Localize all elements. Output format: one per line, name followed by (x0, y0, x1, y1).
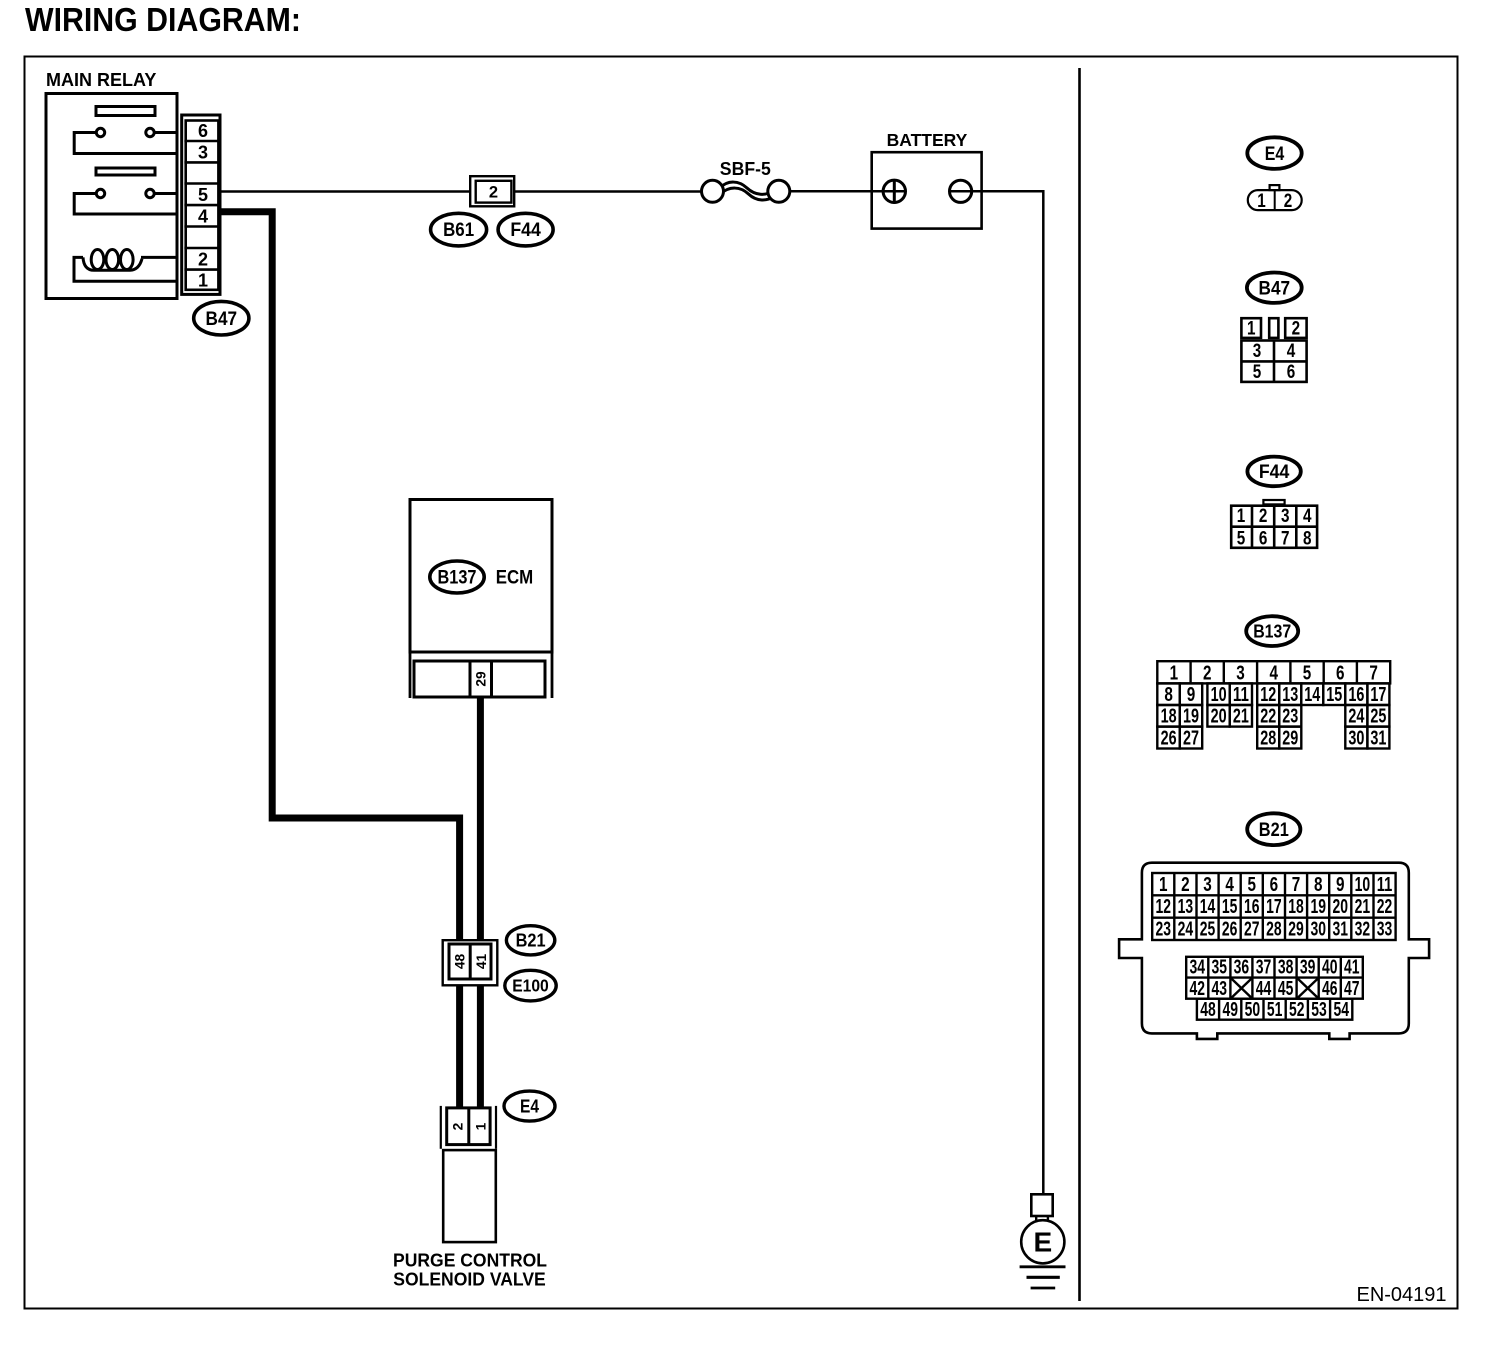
svg-text:18: 18 (1161, 705, 1177, 728)
svg-text:3: 3 (1253, 340, 1262, 362)
connector ref B137 in ECM (430, 561, 484, 593)
svg-text:F44: F44 (1259, 462, 1290, 483)
svg-text:3: 3 (1203, 873, 1212, 896)
svg-text:50: 50 (1245, 998, 1261, 1021)
svg-text:23: 23 (1156, 918, 1172, 941)
wire B21 pin48 to E4 pin2 (456, 985, 463, 1107)
svg-text:12: 12 (1260, 683, 1276, 706)
pinout F44 connector (1263, 500, 1284, 504)
svg-text:41: 41 (474, 954, 489, 970)
svg-text:44: 44 (1256, 977, 1272, 1000)
svg-text:7: 7 (1281, 528, 1290, 550)
svg-text:5: 5 (198, 185, 208, 205)
svg-text:ECM: ECM (496, 568, 534, 589)
svg-text:5: 5 (1253, 361, 1262, 383)
svg-text:46: 46 (1322, 977, 1338, 1000)
svg-text:2: 2 (1181, 873, 1190, 896)
wire contact2 to pin 5 (155, 192, 178, 195)
wire contact1 to pin 6 (155, 131, 178, 134)
connector strip B47 outer (182, 115, 220, 294)
wire contact1 to pin 3 (74, 133, 177, 154)
svg-text:24: 24 (1348, 705, 1364, 728)
pinout B137 oval (1246, 616, 1298, 646)
svg-text:SOLENOID VALVE: SOLENOID VALVE (393, 1268, 546, 1289)
svg-text:22: 22 (1377, 895, 1393, 918)
svg-text:8: 8 (1303, 528, 1312, 550)
svg-text:9: 9 (1336, 873, 1345, 896)
svg-text:20: 20 (1211, 705, 1227, 728)
wire relay pin5 to B61-F44 junction (220, 190, 470, 193)
svg-text:14: 14 (1200, 895, 1216, 918)
svg-text:10: 10 (1355, 873, 1371, 896)
svg-text:7: 7 (1292, 873, 1301, 896)
svg-text:5: 5 (1303, 661, 1312, 684)
svg-text:11: 11 (1377, 873, 1393, 896)
wire ECM pin29 to B21 pin41 (477, 697, 484, 941)
svg-text:26: 26 (1161, 727, 1177, 750)
ECM connector strip (414, 661, 545, 697)
svg-text:22: 22 (1260, 705, 1276, 728)
connector ref B47 (194, 301, 249, 335)
svg-text:2: 2 (451, 1122, 466, 1130)
junction connector pin 2 box (476, 181, 512, 203)
svg-text:4: 4 (1303, 505, 1312, 527)
svg-text:42: 42 (1189, 977, 1205, 1000)
svg-text:28: 28 (1260, 727, 1276, 750)
wire fuse to battery positive (790, 190, 906, 193)
svg-text:4: 4 (198, 206, 208, 226)
svg-text:2: 2 (198, 249, 208, 269)
svg-text:25: 25 (1370, 705, 1386, 728)
svg-text:21: 21 (1233, 705, 1249, 728)
svg-text:54: 54 (1333, 998, 1349, 1021)
svg-text:34: 34 (1189, 956, 1205, 979)
svg-text:21: 21 (1355, 895, 1371, 918)
svg-text:15: 15 (1326, 683, 1342, 706)
ground bars (1020, 1265, 1066, 1268)
svg-text:BATTERY: BATTERY (887, 130, 968, 150)
svg-text:41: 41 (1344, 956, 1360, 979)
svg-text:39: 39 (1300, 956, 1316, 979)
svg-text:32: 32 (1355, 918, 1371, 941)
svg-text:4: 4 (1225, 873, 1234, 896)
svg-text:1: 1 (474, 1122, 489, 1130)
inline connector B21-E100 outer (443, 940, 498, 985)
svg-text:38: 38 (1278, 956, 1294, 979)
svg-text:53: 53 (1311, 998, 1327, 1021)
svg-text:36: 36 (1234, 956, 1250, 979)
svg-text:28: 28 (1266, 918, 1282, 941)
svg-text:B21: B21 (1259, 820, 1289, 841)
ECM side stub left (409, 652, 412, 698)
svg-text:2: 2 (1203, 661, 1212, 684)
svg-text:14: 14 (1304, 683, 1320, 706)
svg-text:16: 16 (1348, 683, 1364, 706)
svg-text:E4: E4 (1265, 143, 1285, 165)
svg-text:6: 6 (198, 121, 208, 141)
svg-text:8: 8 (1314, 873, 1323, 896)
pinout E4 connector (1270, 185, 1280, 190)
junction connector outer (470, 176, 514, 206)
battery box (872, 152, 982, 228)
svg-text:B47: B47 (1259, 278, 1291, 299)
svg-text:3: 3 (1281, 505, 1290, 527)
svg-text:2: 2 (1259, 505, 1268, 527)
svg-text:26: 26 (1222, 918, 1238, 941)
svg-text:17: 17 (1370, 683, 1386, 706)
svg-text:19: 19 (1183, 705, 1199, 728)
svg-text:3: 3 (198, 142, 208, 162)
svg-text:E4: E4 (520, 1096, 539, 1116)
svg-text:E100: E100 (512, 976, 549, 996)
svg-text:13: 13 (1178, 895, 1194, 918)
svg-text:15: 15 (1222, 895, 1238, 918)
svg-text:45: 45 (1278, 977, 1294, 1000)
svg-text:1: 1 (1159, 873, 1168, 896)
svg-text:12: 12 (1156, 895, 1172, 918)
svg-text:49: 49 (1222, 998, 1238, 1021)
wire junction to fuse SBF-5 (514, 190, 701, 193)
svg-text:47: 47 (1344, 977, 1360, 1000)
pinout B47 connector (1241, 318, 1261, 338)
purge control solenoid valve body (443, 1150, 496, 1242)
pinout E4 oval (1247, 137, 1301, 169)
pinout B137 connector (1157, 661, 1390, 748)
pinout B21 connector body (1119, 863, 1429, 1039)
svg-text:18: 18 (1288, 895, 1304, 918)
svg-text:23: 23 (1282, 705, 1298, 728)
svg-text:27: 27 (1183, 727, 1199, 750)
connector ref B21 (506, 926, 554, 955)
svg-text:19: 19 (1310, 895, 1326, 918)
svg-text:31: 31 (1333, 918, 1349, 941)
relay contact bar 1 (96, 107, 155, 116)
svg-text:2: 2 (489, 184, 498, 202)
svg-text:MAIN RELAY: MAIN RELAY (46, 70, 156, 90)
connector E4 at valve (440, 1106, 442, 1149)
svg-text:1: 1 (1170, 661, 1179, 684)
svg-text:B137: B137 (438, 568, 477, 589)
svg-text:B137: B137 (1253, 621, 1291, 642)
svg-text:6: 6 (1287, 361, 1296, 383)
inline connector B21-E100 cells (449, 944, 491, 979)
battery positive terminal (883, 180, 905, 202)
wire B21 pin41 to E4 pin1 (477, 985, 484, 1107)
svg-text:40: 40 (1322, 956, 1338, 979)
svg-text:20: 20 (1333, 895, 1349, 918)
svg-text:4: 4 (1269, 661, 1278, 684)
svg-text:4: 4 (1287, 340, 1296, 362)
svg-text:F44: F44 (510, 220, 541, 241)
wire relay pin4 to B21 pin48 (220, 212, 460, 941)
pinout B21 oval (1247, 813, 1300, 845)
svg-text:52: 52 (1289, 998, 1305, 1021)
svg-text:9: 9 (1187, 683, 1196, 706)
wire battery negative to ground E (950, 191, 1044, 1193)
svg-text:17: 17 (1266, 895, 1282, 918)
relay contact 2 terminals (96, 189, 104, 197)
svg-text:27: 27 (1244, 918, 1260, 941)
svg-text:1: 1 (1257, 190, 1266, 212)
svg-text:29: 29 (1282, 727, 1298, 750)
fuse SBF-5 symbol (719, 182, 775, 200)
svg-text:29: 29 (1288, 918, 1304, 941)
connector strip B47 cells (186, 121, 219, 290)
svg-text:B21: B21 (516, 931, 546, 951)
divider line (1078, 68, 1081, 1301)
svg-text:6: 6 (1336, 661, 1345, 684)
pinout F44 oval (1247, 457, 1300, 487)
svg-text:5: 5 (1248, 873, 1257, 896)
svg-text:16: 16 (1244, 895, 1260, 918)
svg-text:11: 11 (1233, 683, 1249, 706)
svg-text:29: 29 (474, 671, 489, 687)
connector ref B61 (431, 213, 487, 246)
svg-text:10: 10 (1211, 683, 1227, 706)
relay body box (46, 94, 177, 299)
svg-text:WIRING DIAGRAM:: WIRING DIAGRAM: (25, 1, 301, 38)
B21 top pin grid (1152, 873, 1395, 1020)
relay coil (74, 250, 177, 282)
svg-text:6: 6 (1270, 873, 1279, 896)
svg-text:24: 24 (1178, 918, 1194, 941)
svg-text:13: 13 (1282, 683, 1298, 706)
relay contact 1 terminals (96, 128, 104, 136)
svg-text:1: 1 (1247, 318, 1256, 340)
connector ref E100 (505, 970, 556, 1001)
svg-text:43: 43 (1212, 977, 1228, 1000)
ground E circle (1021, 1220, 1064, 1263)
svg-text:3: 3 (1236, 661, 1245, 684)
svg-text:1: 1 (1237, 505, 1246, 527)
ECM box (410, 500, 552, 653)
ECM side stub right (551, 652, 554, 698)
svg-text:51: 51 (1267, 998, 1283, 1021)
svg-text:35: 35 (1212, 956, 1228, 979)
svg-text:48: 48 (1200, 998, 1216, 1021)
svg-text:B47: B47 (206, 309, 238, 330)
wire contact2 to pin 4 (74, 194, 177, 215)
ground connector square (1031, 1194, 1052, 1216)
connector ref F44 (498, 213, 553, 246)
svg-text:EN-04191: EN-04191 (1357, 1284, 1447, 1306)
svg-text:8: 8 (1164, 683, 1173, 706)
svg-text:48: 48 (453, 954, 468, 970)
pinout B47 oval (1247, 273, 1302, 303)
connector ref E4 (504, 1091, 555, 1121)
svg-text:B61: B61 (443, 220, 474, 241)
svg-text:1: 1 (198, 271, 208, 291)
svg-text:31: 31 (1370, 727, 1386, 750)
svg-text:E: E (1033, 1227, 1052, 1258)
svg-text:33: 33 (1377, 918, 1393, 941)
svg-text:37: 37 (1256, 956, 1272, 979)
svg-text:SBF-5: SBF-5 (720, 159, 771, 179)
svg-text:6: 6 (1259, 528, 1268, 550)
svg-text:2: 2 (1292, 318, 1301, 340)
relay contact bar 2 (96, 168, 155, 175)
battery negative terminal (950, 180, 972, 202)
svg-text:5: 5 (1237, 528, 1246, 550)
svg-text:2: 2 (1284, 190, 1293, 212)
svg-text:30: 30 (1348, 727, 1364, 750)
svg-text:30: 30 (1310, 918, 1326, 941)
svg-text:25: 25 (1200, 918, 1216, 941)
svg-text:7: 7 (1369, 661, 1378, 684)
